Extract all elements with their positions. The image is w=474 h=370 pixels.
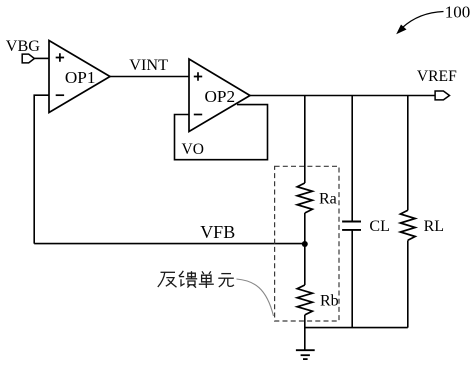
- wire: OP2 output rail to VREF pin: [250, 95, 435, 97]
- wire VBG pin to OP1 +: [34, 57, 49, 59]
- wire CL to bottom rail: [351, 230, 353, 328]
- hanzi KUI: [179, 271, 197, 288]
- resistor RL: [400, 210, 415, 240]
- leader arrow to 100: [396, 12, 443, 35]
- wire bottom rail: [305, 327, 408, 329]
- svg-text:VFB: VFB: [200, 222, 235, 242]
- wire RL to bottom rail: [407, 240, 409, 327]
- label FanKuiDanYuan (feedback unit), drawn as strokes: [158, 271, 234, 288]
- wire VFB: [34, 243, 305, 245]
- svg-text:OP2: OP2: [205, 87, 236, 106]
- leader curve from label to dashed box: [237, 279, 274, 316]
- wire node VFB to Rb: [304, 244, 306, 285]
- OP2 - sign: [194, 114, 202, 116]
- resistor Rb: [297, 285, 312, 315]
- hanzi DAN: [199, 271, 214, 288]
- svg-text:CL: CL: [369, 218, 389, 235]
- wire VINT: OP1 out to OP2 +: [110, 76, 189, 78]
- resistor Ra: [297, 183, 312, 213]
- wire Ra to node VFB: [304, 213, 306, 244]
- svg-text:VO: VO: [182, 141, 204, 158]
- OP1 - sign: [56, 94, 64, 96]
- wire: rail down to Ra: [304, 96, 306, 184]
- wire VO feedback loop around OP2 (net VO): [175, 105, 268, 160]
- OP1 + sign: [56, 53, 64, 61]
- junction dot node VFB: [302, 241, 308, 247]
- output pin VREF: [435, 91, 449, 100]
- op-amp OP1: [49, 41, 110, 113]
- svg-text:RL: RL: [424, 218, 444, 235]
- hanzi FAN: [158, 272, 177, 287]
- svg-text:100: 100: [445, 3, 471, 22]
- op-amp OP2: [189, 59, 250, 132]
- wire OP1 - input loop down to VFB: [34, 95, 49, 243]
- capacitor CL: [342, 222, 361, 230]
- svg-text:OP1: OP1: [65, 68, 96, 87]
- svg-text:Rb: Rb: [320, 293, 339, 310]
- wire Rb to ground: [304, 315, 306, 350]
- wire: rail down to RL: [407, 96, 409, 211]
- wire: rail down to CL: [351, 96, 353, 222]
- dashed box: feedback unit: [275, 166, 339, 321]
- OP2 + sign: [194, 72, 202, 80]
- svg-text:VBG: VBG: [6, 37, 40, 55]
- svg-text:VREF: VREF: [417, 68, 457, 85]
- hanzi YUAN: [218, 274, 234, 287]
- input pin VBG: [22, 54, 34, 63]
- svg-text:Ra: Ra: [319, 190, 337, 207]
- svg-text:VINT: VINT: [129, 56, 168, 74]
- ground: [296, 350, 315, 359]
